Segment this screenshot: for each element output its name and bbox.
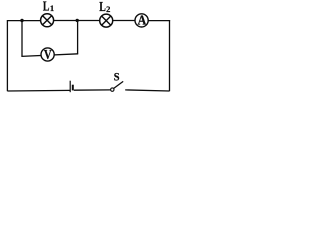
wire: right vertical side of outer loop — [169, 20, 171, 91]
svg-text:2: 2 — [106, 4, 110, 14]
svg-text:L: L — [43, 0, 50, 13]
svg-text:V: V — [44, 47, 52, 62]
ammeter A (U: meter) — [135, 12, 148, 27]
battery cell: long positive plate — [69, 81, 71, 93]
wire: lamp L2 to ammeter — [113, 20, 135, 22]
node junction dot (right, top of voltmeter branch) — [76, 19, 79, 22]
svg-text:1: 1 — [50, 3, 54, 13]
voltmeter V — [41, 47, 54, 62]
lamp L1 — [41, 14, 54, 27]
svg-text:S: S — [114, 70, 120, 84]
wire: voltmeter branch, left vertical from junction — [21, 21, 23, 57]
lamp L2 — [100, 14, 113, 27]
wire: battery to switch — [74, 89, 111, 91]
battery cell: short negative plate — [72, 85, 74, 91]
svg-text:L: L — [99, 0, 106, 14]
wire: ammeter to top-right corner — [148, 20, 170, 22]
wire: left vertical side of outer loop — [6, 20, 8, 91]
wire: bottom, left corner to battery — [7, 89, 70, 92]
node junction dot (left, top of voltmeter branch) — [20, 19, 23, 22]
wire: lamp L1 to lamp L2 — [54, 20, 100, 22]
wire: voltmeter branch, right vertical up to junction — [77, 20, 79, 53]
wire: voltmeter branch, bottom horizontal — [21, 54, 78, 57]
wire: top, left corner to lamp L1 — [7, 20, 40, 22]
switch S: pivot contact circle — [111, 88, 114, 91]
svg-text:A: A — [138, 12, 147, 27]
switch S: open blade arm — [114, 81, 124, 88]
wire: switch to bottom-right corner — [125, 90, 169, 91]
